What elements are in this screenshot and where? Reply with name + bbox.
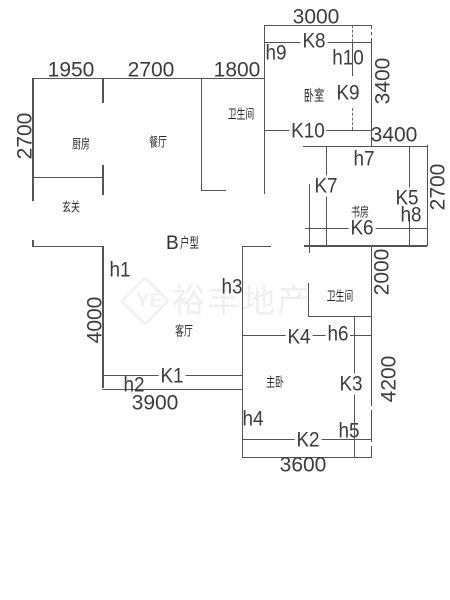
room label bedroom <box>304 89 324 104</box>
tick at entry bottom left <box>32 240 33 247</box>
wall: bathroom bottom <box>201 190 226 191</box>
wall: K5 wall upper <box>409 146 410 190</box>
dimension 4000 rotated <box>85 297 106 344</box>
wall: master top stub <box>242 246 271 247</box>
dimension 3900 <box>132 393 179 414</box>
window K8 line <box>264 42 372 43</box>
label h9 <box>265 42 286 63</box>
wall: living/master shared wall <box>242 246 243 457</box>
wall: left outer wall <box>32 78 33 201</box>
wall: top outer wall <box>33 78 264 79</box>
room label bathroom 2 <box>326 289 353 302</box>
wall: bedroom top <box>264 25 372 26</box>
label h10 (line passes through) <box>332 48 364 69</box>
label K5 <box>394 188 421 209</box>
wall: living room bottom <box>102 389 242 390</box>
wall: study left <box>309 184 310 253</box>
wall: master bath bottom <box>308 316 372 317</box>
dimension 2000 rotated <box>372 249 393 296</box>
window K1 line <box>102 375 243 376</box>
dimension 1800 <box>214 60 261 81</box>
wall: entry bottom <box>33 246 103 247</box>
label K4 <box>286 326 313 347</box>
label h2 <box>123 375 144 396</box>
room label living room <box>175 325 193 338</box>
wall: kitchen/dining partition stub lower <box>102 165 103 195</box>
label K10 <box>289 121 326 142</box>
dimension 2700 top <box>128 60 175 81</box>
room label study <box>351 206 369 219</box>
label K3 <box>337 373 364 394</box>
window K6 line <box>305 228 428 229</box>
label K8 <box>301 30 328 51</box>
room label entry <box>62 201 80 214</box>
room label dining <box>149 136 167 149</box>
room label master bedroom <box>266 375 284 388</box>
label h5 <box>338 420 359 441</box>
wall: bathroom left <box>201 78 202 191</box>
label h8 <box>400 205 421 226</box>
room label kitchen <box>72 137 90 150</box>
wall: K5 wall lower <box>409 214 410 247</box>
wall: study bottom <box>304 245 427 246</box>
dash gap master right wall <box>370 406 374 410</box>
axis solid segment <box>352 42 353 77</box>
watermark logo <box>120 276 171 327</box>
label K7 <box>313 175 340 196</box>
room label bathroom 1 <box>228 108 255 121</box>
wall: master right <box>371 245 372 457</box>
label K2 <box>294 429 321 450</box>
label h3 <box>221 277 242 298</box>
label K6 <box>349 217 376 238</box>
window K4 line <box>242 335 371 336</box>
dimension 4200 rotated <box>379 356 400 403</box>
wall: living room left <box>102 246 103 388</box>
wall: study right <box>427 145 428 246</box>
wall: master bottom <box>242 457 372 458</box>
label h7 <box>353 148 374 169</box>
wall: K3 wall <box>354 316 355 458</box>
dimension 3400 horizontal <box>371 125 418 146</box>
wall: kitchen/dining partition stub upper <box>102 78 103 103</box>
wall: kitchen bottom <box>33 177 103 178</box>
watermark text <box>172 284 312 317</box>
wall: master bath left <box>308 283 309 316</box>
wall: bedroom right <box>371 25 372 146</box>
dimension 1950 <box>48 60 95 81</box>
axis dash bottom <box>352 108 353 130</box>
label h6 <box>326 323 351 344</box>
dimension 3600 <box>280 455 327 476</box>
wall: bathroom right / bedroom left <box>264 25 265 194</box>
window K2 line <box>242 439 371 440</box>
dimension 3400 right rotated <box>373 58 394 105</box>
axis dash top <box>352 25 353 42</box>
dimension 3000 <box>293 6 340 27</box>
label K9 <box>336 82 359 103</box>
wall: K7 wall <box>326 146 327 247</box>
window K10 line / bedroom bottom <box>264 130 372 131</box>
wall: study top <box>303 146 427 147</box>
dash gap bedroom right wall <box>370 29 374 32</box>
label K1 <box>159 366 186 387</box>
dimension 2700 right rotated <box>428 164 449 211</box>
label h4 <box>242 409 263 430</box>
label B unit type <box>166 234 208 253</box>
label h1 <box>109 259 130 280</box>
dimension 2700 left rotated <box>15 113 36 160</box>
